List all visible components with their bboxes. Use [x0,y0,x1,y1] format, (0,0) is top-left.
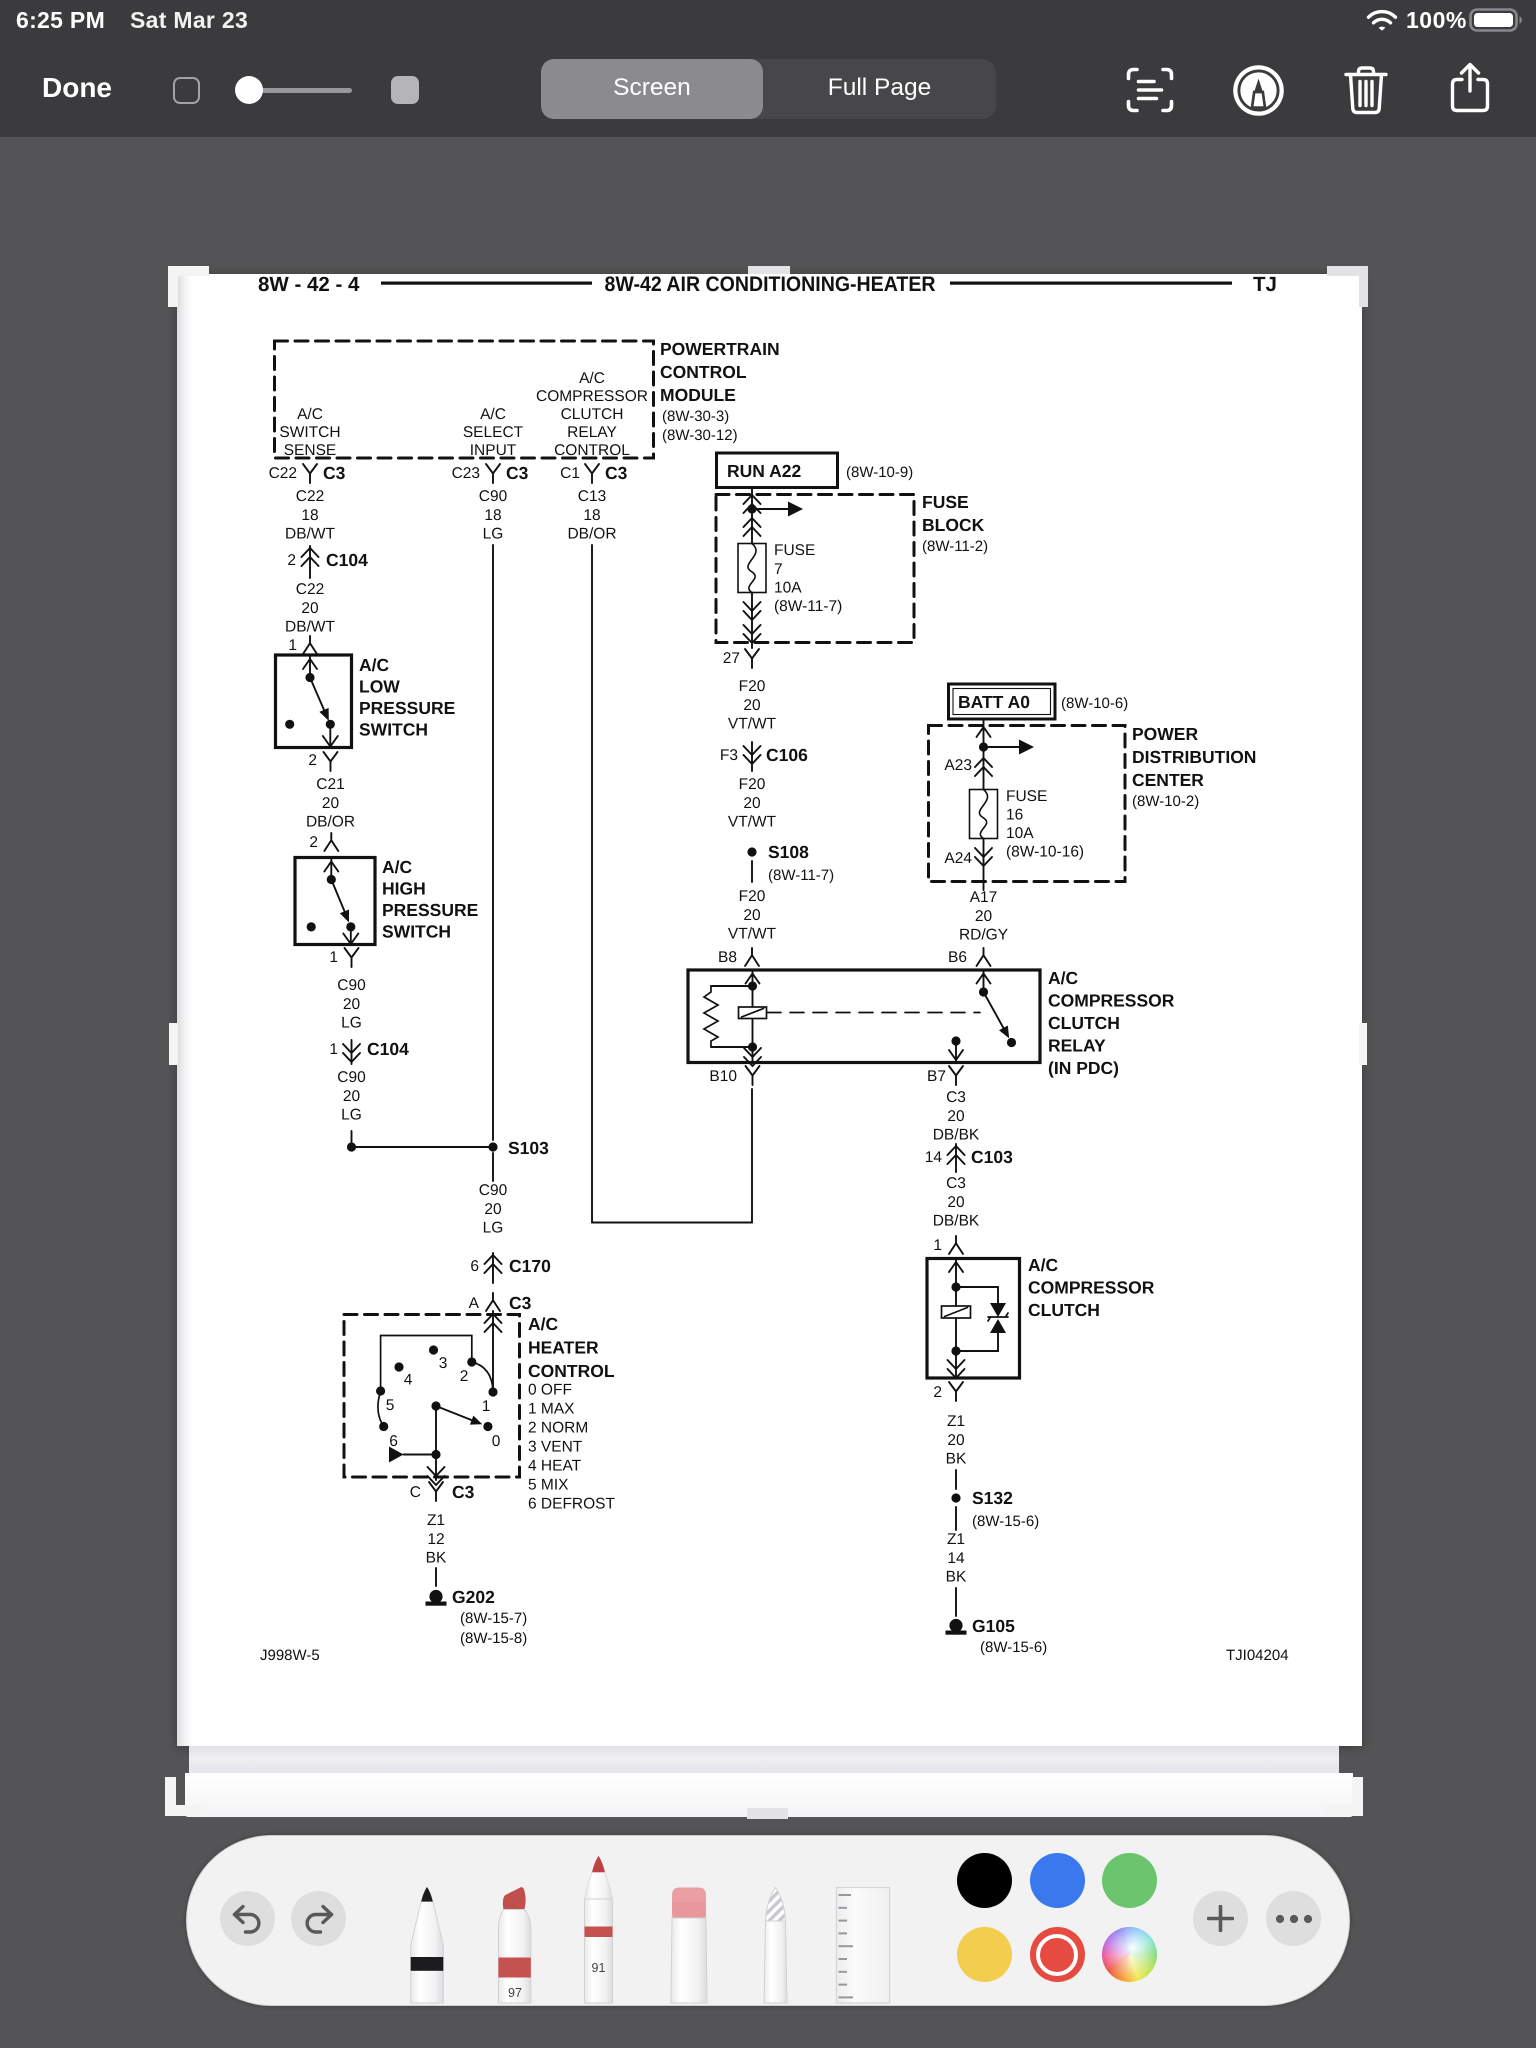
svg-text:FUSE: FUSE [774,542,815,559]
relay coil top node [748,981,757,990]
svg-text:A: A [469,1295,480,1312]
svg-text:1: 1 [933,1237,942,1254]
svg-text:(IN PDC): (IN PDC) [1048,1058,1119,1078]
svg-text:DB/WT: DB/WT [285,619,335,636]
relay output wire w/ arrow [955,1041,957,1062]
svg-text:(8W-10-9): (8W-10-9) [846,464,913,481]
svg-text:C103: C103 [971,1147,1013,1167]
power distribution center dashed box [929,726,1126,882]
svg-text:B10: B10 [709,1068,737,1085]
powertrain control module PCM dashed box [275,341,654,458]
svg-text:SWITCH: SWITCH [279,424,340,441]
svg-text:12: 12 [427,1531,444,1548]
svg-text:C21: C21 [316,776,344,793]
svg-text:RELAY: RELAY [567,424,617,441]
svg-text:20: 20 [343,996,361,1013]
node after BATT [979,742,988,751]
wire label C90 20 LG (below C104) [337,1069,366,1124]
connector C103 pin 14 [925,1147,1013,1167]
svg-text:DB/OR: DB/OR [306,814,355,831]
svg-text:C3: C3 [506,463,529,483]
svg-text:(8W-15-7): (8W-15-7) [460,1610,527,1627]
position 1 contact [488,1387,497,1396]
marker tool [498,1887,530,2003]
high pressure switch entry wire w/ arrow [330,859,332,878]
wire label C90 20 LG (above C104) [337,977,366,1032]
svg-text:A17: A17 [970,889,998,906]
position 2 contact [467,1357,476,1366]
A/C compressor clutch relay box [688,970,1040,1063]
wire below S103 [492,1153,494,1181]
svg-text:91: 91 [592,1961,606,1975]
svg-text:C22: C22 [296,581,324,598]
relay pin B8 connector [718,949,737,966]
svg-text:F3: F3 [720,747,738,764]
svg-text:S132: S132 [972,1488,1013,1508]
relay coil input wire B8 w/ arrow [752,971,754,985]
wire label Z1 14 BK [946,1531,967,1586]
svg-text:3: 3 [439,1355,448,1372]
svg-text:27: 27 [723,650,740,667]
splice S132 [951,1493,960,1502]
wire label C90 18 LG [479,488,508,543]
footer drawing number TJI04204 [1226,1647,1289,1664]
svg-text:FUSE: FUSE [922,492,969,512]
fuse block dashed box [716,495,914,643]
svg-text:20: 20 [975,908,993,925]
svg-text:A/C: A/C [1048,968,1079,988]
svg-text:TJI04204: TJI04204 [1226,1647,1289,1664]
clutch coil top node [951,1282,960,1291]
relay coil bottom node [748,1042,757,1051]
wire label F20 20 VT/WT (third) [728,888,777,943]
svg-text:FUSE: FUSE [1006,788,1047,805]
svg-text:4 HEAT: 4 HEAT [528,1458,582,1475]
svg-text:PRESSURE: PRESSURE [382,900,478,920]
svg-text:DB/BK: DB/BK [933,1127,980,1144]
svg-text:C22: C22 [269,465,297,482]
wire label C3 20 DB/BK (below C103) [933,1175,980,1230]
wire label C90 20 LG (below S103) [479,1182,508,1237]
clutch entry wire w/ arrow [955,1260,957,1287]
svg-text:20: 20 [343,1088,361,1105]
svg-text:INPUT: INPUT [470,442,517,459]
svg-text:5 MIX: 5 MIX [528,1477,569,1494]
svg-text:20: 20 [947,1194,965,1211]
position 6 contact [379,1422,388,1431]
svg-text:A24: A24 [944,850,972,867]
svg-text:(8W-15-8): (8W-15-8) [460,1630,527,1647]
svg-text:1: 1 [329,1041,338,1058]
svg-text:LG: LG [341,1107,362,1124]
svg-text:POWER: POWER [1132,724,1198,744]
svg-text:CLUTCH: CLUTCH [1048,1013,1120,1033]
A/C heater control dashed box [344,1315,520,1478]
svg-text:C: C [410,1484,421,1501]
wire label C22 18 DB/WT [285,488,335,543]
svg-text:C104: C104 [367,1039,409,1059]
svg-text:6: 6 [470,1258,479,1275]
svg-text:1: 1 [288,637,297,654]
branch arrow to other circuits [752,508,788,510]
A/C low pressure switch box [276,655,352,748]
svg-text:2: 2 [460,1368,469,1385]
clutch suppression diode branch [956,1287,998,1351]
lasso selection tool [764,1888,787,2004]
svg-text:2: 2 [287,552,296,569]
svg-text:C22: C22 [296,488,324,505]
svg-text:C104: C104 [326,550,368,570]
wire label C22 20 DB/WT [285,581,335,636]
low pressure switch contact node bottom [326,720,335,729]
stub above S132 [955,1470,957,1489]
svg-text:RELAY: RELAY [1048,1036,1106,1056]
colored pencil tool (selected/raised) [585,1856,613,2003]
svg-text:BK: BK [946,1451,967,1468]
svg-text:F20: F20 [739,678,766,695]
svg-text:MODULE: MODULE [660,385,736,405]
svg-text:8W-42 AIR CONDITIONING-HEATER: 8W-42 AIR CONDITIONING-HEATER [605,273,936,296]
svg-text:(8W-15-6): (8W-15-6) [972,1513,1039,1530]
svg-text:SENSE: SENSE [284,442,337,459]
eraser tool [671,1888,707,2004]
PDC pin A24 w/ chevrons [944,850,972,867]
ground G202 [429,1590,442,1603]
low pressure switch arm (closed, arrow) [310,678,325,712]
low pressure switch unused contact [285,720,294,729]
svg-text:6 DEFROST: 6 DEFROST [528,1496,616,1513]
svg-text:20: 20 [947,1108,965,1125]
svg-text:G202: G202 [452,1587,495,1607]
svg-text:(8W-11-7): (8W-11-7) [768,867,834,884]
connector C104 pin 2 [287,550,368,570]
svg-text:VT/WT: VT/WT [728,814,777,831]
relay common input wire B6 w/ arrow [983,971,985,991]
PDC pin A23 w/ chevrons [944,757,972,774]
svg-text:10A: 10A [1006,825,1034,842]
wire into fuse block w/ chevron [751,489,753,544]
svg-text:0 OFF: 0 OFF [528,1382,572,1399]
A/C high pressure switch box [295,858,375,945]
svg-text:BK: BK [946,1569,967,1586]
svg-text:COMPRESSOR: COMPRESSOR [1048,991,1175,1011]
power distribution center label [1132,724,1256,810]
connector C104 pin 1 [329,1039,409,1059]
connector C3 pin A [469,1293,532,1313]
wire label C13 18 DB/OR [567,488,616,543]
high pressure switch exit wire w/ arrow [350,927,352,944]
svg-text:C90: C90 [337,977,366,994]
common feed triangle [389,1447,404,1463]
rotary switch wiper arm to position 0 (arrow) [436,1406,472,1420]
svg-text:(8W-30-3): (8W-30-3) [662,408,729,425]
node after RUN A22 [747,504,756,513]
header rule right [950,282,1232,285]
connector C106 pin F3 [720,745,808,765]
connector pin 2 into high pressure switch [309,834,318,851]
svg-text:SELECT: SELECT [463,424,524,441]
green swatch [1102,1853,1157,1908]
svg-text:C3: C3 [946,1089,966,1106]
svg-text:CENTER: CENTER [1132,770,1204,790]
svg-text:PRESSURE: PRESSURE [359,698,455,718]
svg-text:B8: B8 [718,949,737,966]
svg-text:20: 20 [743,697,761,714]
wire label C3 20 DB/BK (above C103) [933,1089,980,1144]
rotary switch track rectangle to position 5 [381,1336,472,1392]
relay actuation dashed link [767,1012,980,1014]
svg-text:A/C: A/C [297,406,323,423]
svg-text:SWITCH: SWITCH [382,922,451,942]
svg-text:97: 97 [508,1986,522,2000]
svg-text:(8W-11-7): (8W-11-7) [774,598,842,615]
blue swatch [1030,1853,1085,1908]
svg-text:C1: C1 [560,465,580,482]
svg-text:CONTROL: CONTROL [554,442,630,459]
svg-text:(8W-15-6): (8W-15-6) [980,1639,1047,1656]
high pressure switch contact node bottom [346,922,355,931]
svg-text:DB/WT: DB/WT [285,526,335,543]
fuse 7 10A [738,544,766,593]
connector pin 1 into compressor clutch [933,1237,942,1254]
svg-text:LG: LG [483,526,504,543]
svg-text:Z1: Z1 [947,1531,965,1548]
wire label A17 20 RD/GY [959,889,1008,944]
connector C170 pin 6 [470,1256,551,1276]
svg-text:C90: C90 [479,1182,508,1199]
stub above G105 [955,1588,957,1616]
yellow swatch [957,1927,1012,1982]
rotary switch wiper hub [431,1401,440,1410]
relay label [1048,968,1175,1078]
svg-text:C170: C170 [509,1256,551,1276]
svg-text:2: 2 [933,1384,942,1401]
svg-text:8W - 42 - 4: 8W - 42 - 4 [258,273,360,296]
splice node on LG wire [347,1142,356,1151]
relay pin B7 connector [927,1068,946,1085]
heater control label [528,1314,615,1381]
svg-text:Z1: Z1 [947,1413,965,1430]
footer sheet number J998W-5 [260,1647,320,1664]
branch arrow to other circuits (PDC) [984,746,1020,748]
svg-text:20: 20 [322,795,340,812]
svg-text:BLOCK: BLOCK [922,515,985,535]
wire label C21 20 DB/OR [306,776,355,831]
svg-text:A23: A23 [944,757,972,774]
relay common node [979,987,988,996]
svg-text:18: 18 [484,507,501,524]
svg-text:18: 18 [301,507,318,524]
svg-text:C3: C3 [452,1482,475,1502]
svg-text:20: 20 [484,1201,502,1218]
relay switch arm (open, arrow) [984,992,1005,1029]
svg-text:C3: C3 [605,463,628,483]
clutch coil bottom node [951,1346,960,1355]
svg-text:7: 7 [774,561,783,578]
A/C low pressure switch label [359,655,455,740]
svg-text:A/C: A/C [359,655,390,675]
wire up to relay pin B10 [751,1089,753,1223]
relay output node B7 [951,1036,960,1045]
svg-text:B6: B6 [948,949,967,966]
svg-text:BK: BK [426,1550,447,1567]
svg-text:BATT A0: BATT A0 [958,692,1030,712]
svg-text:VT/WT: VT/WT [728,926,777,943]
svg-text:DB/OR: DB/OR [567,526,616,543]
connector C3 pin C22 [269,463,346,483]
connector C3 pin C23 [452,463,529,483]
svg-text:F20: F20 [739,776,766,793]
wire below fuse 7 w/ chevrons [751,593,753,649]
rotary switch wiper track (2 to 1 arc) [472,1362,493,1391]
svg-text:S108: S108 [768,842,809,862]
wire label Z1 20 BK [946,1413,967,1468]
svg-text:COMPRESSOR: COMPRESSOR [1028,1278,1155,1298]
rotary switch arc 5 to 6 [378,1391,384,1427]
compressor clutch label [1028,1255,1155,1320]
fuse 16 10A [970,790,998,839]
stub above G202 [435,1568,437,1586]
svg-text:C106: C106 [766,745,808,765]
svg-text:0: 0 [492,1433,501,1450]
low pressure switch contact node top [305,673,314,682]
position 5 contact [376,1386,385,1395]
relay coil [752,986,754,1047]
svg-text:POWERTRAIN: POWERTRAIN [660,339,780,359]
svg-text:C3: C3 [509,1293,532,1313]
svg-text:Z1: Z1 [427,1512,445,1529]
svg-text:LG: LG [341,1015,362,1032]
position 3 contact [429,1345,438,1354]
wire from LG wire to splice S103 [352,1146,494,1148]
wire label F20 20 VT/WT (second) [728,776,777,831]
svg-text:C90: C90 [337,1069,366,1086]
svg-text:VT/WT: VT/WT [728,716,777,733]
svg-text:C23: C23 [452,465,480,482]
heater control position legend [528,1382,616,1513]
svg-text:A/C: A/C [1028,1255,1059,1275]
svg-text:(8W-10-6): (8W-10-6) [1061,695,1128,712]
high pressure switch unused contact [307,922,316,931]
connector C3 pin C [410,1482,475,1502]
svg-text:16: 16 [1006,807,1023,824]
position 4 contact [394,1362,403,1371]
svg-text:2 NORM: 2 NORM [528,1420,588,1437]
svg-text:1: 1 [329,949,338,966]
svg-text:C90: C90 [479,488,508,505]
svg-text:HEATER: HEATER [528,1338,599,1358]
RUN A22 source box [717,453,838,488]
svg-text:F20: F20 [739,888,766,905]
heater control exit wire w/ chevron [435,1455,437,1481]
svg-text:CLUTCH: CLUTCH [561,406,624,423]
svg-text:C3: C3 [323,463,346,483]
svg-text:A/C: A/C [579,370,605,387]
wire stub into splice row [351,1131,353,1147]
svg-text:S103: S103 [508,1138,549,1158]
relay coil exit wire w/ chevrons [752,1047,754,1062]
svg-text:2: 2 [308,752,317,769]
connector pin 1 below high pressure switch [329,949,338,966]
svg-text:TJ: TJ [1253,273,1277,296]
svg-text:B7: B7 [927,1068,946,1085]
svg-text:LG: LG [483,1220,504,1237]
low pressure switch exit wire w/ arrow [329,724,331,746]
svg-text:G105: G105 [972,1616,1015,1636]
fuse block label [922,492,988,555]
ruler tool [837,1888,890,2004]
position 0 contact [483,1422,492,1431]
svg-text:2: 2 [309,834,318,851]
svg-text:RD/GY: RD/GY [959,927,1008,944]
svg-text:10A: 10A [774,580,802,597]
svg-text:C3: C3 [946,1175,966,1192]
svg-text:LOW: LOW [359,677,400,697]
svg-text:3 VENT: 3 VENT [528,1439,583,1456]
diode D1 (zener pair) [990,1303,1006,1317]
svg-text:1 MAX: 1 MAX [528,1401,575,1418]
svg-text:CONTROL: CONTROL [528,1361,615,1381]
svg-text:A/C: A/C [480,406,506,423]
svg-text:(8W-10-16): (8W-10-16) [1006,844,1084,861]
connector pin 2 below low pressure switch [308,752,317,769]
low pressure switch entry wire w/ arrow [309,657,311,677]
wire from BATT into PDC w/ arrow [983,719,985,747]
header rule left [381,282,592,285]
common junction node [431,1450,440,1459]
splice S103 [488,1142,497,1151]
svg-text:A/C: A/C [528,1314,559,1334]
svg-text:COMPRESSOR: COMPRESSOR [536,388,648,405]
splice S108 [747,847,756,856]
connector pin 1 into low pressure switch [288,637,297,654]
chevrons above fuse 7 [744,518,761,536]
clutch coil [955,1287,957,1351]
svg-text:1: 1 [482,1398,491,1415]
relay pin B6 connector [948,949,967,966]
A/C compressor clutch box [927,1259,1020,1379]
ground G105 [949,1619,962,1632]
svg-text:A/C: A/C [382,857,413,877]
svg-text:HIGH: HIGH [382,879,426,899]
black swatch [957,1853,1012,1908]
bottom markup toolbar [186,1835,1350,2006]
connector C3 pin C1 [560,463,627,483]
pencil tool [411,1887,444,2003]
stub below S108 [751,861,753,882]
svg-text:20: 20 [947,1432,965,1449]
connector pin 2 below compressor clutch [933,1384,942,1401]
svg-text:20: 20 [743,907,761,924]
svg-text:CLUTCH: CLUTCH [1028,1300,1100,1320]
svg-text:DISTRIBUTION: DISTRIBUTION [1132,747,1256,767]
stub below S132 [955,1507,957,1530]
high pressure switch contact node top [327,875,336,884]
wire label F20 20 VT/WT (first) [728,678,777,733]
svg-text:CONTROL: CONTROL [660,362,747,382]
A/C high pressure switch label [382,857,478,942]
svg-text:DB/BK: DB/BK [933,1213,980,1230]
svg-text:14: 14 [947,1550,965,1567]
svg-text:SWITCH: SWITCH [359,720,428,740]
svg-text:(8W-11-2): (8W-11-2) [922,538,988,555]
wire C13 DB/OR vertical (clutch relay control) [591,545,593,1223]
svg-text:RUN A22: RUN A22 [727,461,801,481]
clutch exit wire w/ chevrons [955,1351,957,1377]
relay pin B10 connector [709,1068,737,1085]
svg-text:20: 20 [743,795,761,812]
svg-text:4: 4 [404,1372,413,1389]
